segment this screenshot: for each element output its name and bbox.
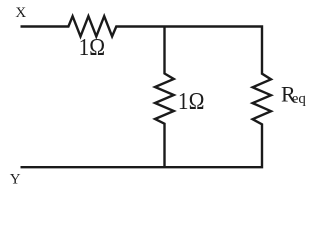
- svg-text:Y: Y: [10, 172, 21, 188]
- svg-text:1Ω: 1Ω: [79, 34, 106, 60]
- svg-text:1Ω: 1Ω: [178, 88, 205, 114]
- svg-text:X: X: [15, 5, 26, 21]
- svg-text:eq: eq: [292, 91, 307, 107]
